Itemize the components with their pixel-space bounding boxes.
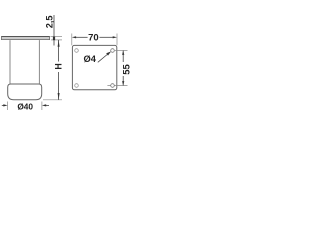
svg-text:Ø4: Ø4 [83, 54, 96, 64]
svg-text:H: H [54, 63, 64, 69]
svg-text:55: 55 [120, 64, 130, 74]
svg-text:2,5: 2,5 [44, 16, 54, 29]
svg-text:70: 70 [88, 33, 99, 44]
svg-text:Ø40: Ø40 [17, 101, 33, 111]
